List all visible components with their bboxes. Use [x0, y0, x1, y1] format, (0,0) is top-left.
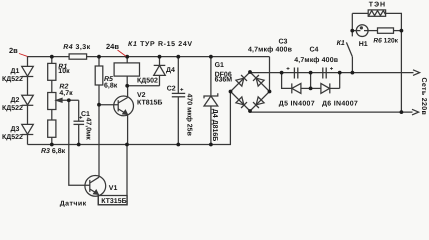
svg-text:Д4 Д816Б: Д4 Д816Б	[211, 109, 218, 142]
svg-text:К1: К1	[337, 40, 345, 47]
svg-text:Д4: Д4	[166, 67, 175, 74]
bridge diode bottom-right	[253, 97, 264, 108]
heater TEN	[368, 10, 385, 16]
zener diode D4 D816B	[210, 57, 212, 96]
junction V2 emitter on ground rail	[125, 143, 129, 147]
junction node C on L line	[338, 71, 342, 75]
wire TEN loop right riser	[386, 13, 402, 112]
svg-text:КД522: КД522	[2, 134, 23, 141]
bridge diode top-right	[253, 75, 264, 86]
svg-text:ТЭН: ТЭН	[369, 2, 386, 9]
pointer line 2v	[19, 50, 126, 56]
transistor V2	[114, 96, 134, 116]
switch contact K1	[351, 57, 353, 73]
junction H1 branch left	[350, 29, 354, 33]
resistor R4	[69, 54, 87, 59]
svg-text:+: +	[330, 66, 334, 72]
svg-text:4,7к: 4,7к	[59, 90, 73, 97]
svg-text:4,7мкф 400в: 4,7мкф 400в	[248, 46, 293, 54]
svg-text:КТ815Б: КТ815Б	[137, 100, 162, 107]
junction R1 top on 24v rail	[50, 55, 54, 59]
diode D4 KD502	[159, 57, 161, 66]
svg-text:+: +	[79, 116, 83, 122]
junction node A on L line	[280, 71, 284, 75]
capacitor C3	[293, 68, 295, 79]
svg-text:К1 ТУР R-15 24V: К1 ТУР R-15 24V	[128, 41, 193, 48]
junction V2 base node	[97, 103, 101, 107]
wire mains L line	[250, 72, 414, 74]
junction relay K1 top on 24v rail	[125, 55, 129, 59]
svg-text:R4 3,3к: R4 3,3к	[63, 44, 90, 51]
svg-text:Д6 IN4007: Д6 IN4007	[322, 100, 358, 107]
svg-text:6,8к: 6,8к	[104, 83, 118, 90]
wire 24v top rail left segment	[28, 57, 70, 67]
junction R3 bottom on ground rail	[50, 143, 54, 147]
capacitor C1	[74, 120, 85, 122]
svg-text:G1: G1	[215, 62, 224, 69]
bridge diode bottom-left	[236, 97, 247, 108]
svg-text:470 мкф 25в: 470 мкф 25в	[186, 94, 194, 137]
junction C2 top on 24v rail	[176, 55, 180, 59]
svg-text:10к: 10к	[58, 68, 70, 75]
junction bridge bottom corner	[248, 109, 252, 113]
svg-text:КД502: КД502	[137, 78, 158, 85]
wire bridge DC plus riser	[269, 57, 271, 92]
diode D5	[291, 83, 293, 93]
junction C2 bottom on ground rail	[176, 143, 180, 147]
diode D3	[22, 124, 34, 134]
wire R1 top lead	[51, 57, 53, 64]
svg-text:Н1: Н1	[359, 41, 368, 48]
svg-text:636M: 636M	[215, 76, 233, 83]
resistor R2 trimmer body	[48, 93, 56, 110]
wire R2 to R3	[51, 110, 53, 121]
junction relay coil bottom node	[125, 84, 129, 88]
wire C1 bottom lead	[78, 124, 80, 144]
svg-text:V2: V2	[137, 92, 146, 99]
diode D6	[311, 87, 321, 89]
wire TEN loop left	[352, 12, 368, 14]
svg-text:2в: 2в	[9, 46, 18, 55]
svg-text:+: +	[180, 87, 184, 93]
svg-text:КД522: КД522	[2, 76, 23, 83]
svg-text:Д2: Д2	[11, 97, 20, 104]
junction K1 riser on L line	[351, 71, 355, 75]
wire R5 bottom lead	[98, 85, 100, 105]
lamp H1	[352, 30, 356, 32]
svg-text:С3: С3	[279, 38, 288, 45]
capacitor C2	[177, 57, 179, 94]
wire R1 to R2	[51, 80, 53, 92]
svg-text:С2: С2	[167, 85, 176, 92]
junction R5 top on 24v rail	[97, 55, 101, 59]
bridge diode top-left	[236, 75, 247, 86]
svg-text:Д1: Д1	[11, 68, 20, 75]
junction D4 top on 24v rail	[158, 55, 162, 59]
svg-text:Д5 IN4007: Д5 IN4007	[279, 100, 315, 107]
wire riser node B	[310, 73, 312, 89]
junction R6 branch right	[400, 29, 404, 33]
bridge rectifier G1 diamond	[231, 72, 270, 111]
wire 24v top rail right segment	[87, 56, 270, 58]
R2 wiper arrow	[61, 99, 79, 101]
wire V2 emitter	[127, 114, 129, 144]
wire D2 to D3	[27, 105, 29, 124]
wire H1 to R6	[368, 30, 377, 32]
wire R3 bottom lead	[51, 137, 53, 144]
resistor R1	[48, 63, 56, 80]
wire riser node C	[339, 73, 341, 89]
wire V1 collector	[98, 105, 100, 178]
wire D1 to D2	[27, 77, 29, 96]
relay K1 coil	[126, 57, 128, 63]
wire D3 to ground rail	[27, 135, 29, 145]
pointer line 24v	[118, 50, 127, 56]
arrow mains N	[412, 109, 419, 115]
junction right riser on N line	[400, 110, 404, 114]
diode D1	[22, 66, 34, 76]
junction node B on diode branch	[309, 87, 313, 91]
diode D2	[22, 95, 34, 105]
svg-text:47,0мк: 47,0мк	[85, 118, 92, 141]
svg-text:Сеть 220в: Сеть 220в	[420, 78, 427, 116]
wire V2 collector	[127, 86, 129, 98]
resistor R5	[95, 66, 103, 85]
wire R5 top lead	[98, 57, 100, 66]
resistor R3	[48, 120, 56, 137]
wire V1 base from R2 wiper	[69, 100, 90, 185]
svg-text:С4: С4	[310, 46, 319, 53]
wire mains N line	[250, 111, 413, 112]
junction C1 bottom on ground rail	[77, 143, 81, 147]
svg-text:КТ315Б: КТ315Б	[101, 198, 126, 205]
svg-text:Д3: Д3	[11, 126, 20, 133]
junction node B on L line	[309, 71, 313, 75]
svg-text:R6 120к: R6 120к	[373, 38, 398, 45]
junction bridge right corner	[268, 90, 272, 94]
wire R6 right lead	[394, 30, 402, 32]
capacitor C4	[322, 68, 324, 79]
svg-text:24в: 24в	[106, 42, 119, 51]
svg-text:КД522: КД522	[2, 105, 23, 112]
wire relay bottom node	[127, 85, 159, 87]
junction zener top on 24v rail	[209, 55, 213, 59]
resistor R6	[378, 28, 394, 33]
wire ground bottom rail	[28, 92, 231, 145]
junction bridge left corner	[229, 90, 233, 94]
wire V1 emitter to ground rail	[98, 145, 127, 205]
svg-text:Датчик: Датчик	[60, 201, 87, 208]
junction R2 wiper node	[67, 98, 71, 102]
label box KT315B	[98, 196, 127, 205]
svg-text:+: +	[286, 67, 290, 73]
wire C1 top lead	[78, 100, 80, 121]
wire D5 branch from node A	[282, 73, 292, 89]
transistor V1	[85, 176, 106, 197]
wire V2 base node	[99, 104, 118, 106]
arrow mains L	[413, 70, 420, 76]
svg-text:R3 6,8к: R3 6,8к	[41, 148, 66, 155]
junction bridge top corner	[248, 70, 252, 74]
svg-text:V1: V1	[109, 185, 118, 192]
junction zener bottom on ground rail	[209, 143, 213, 147]
svg-text:4,7мкф 400в: 4,7мкф 400в	[294, 56, 339, 64]
